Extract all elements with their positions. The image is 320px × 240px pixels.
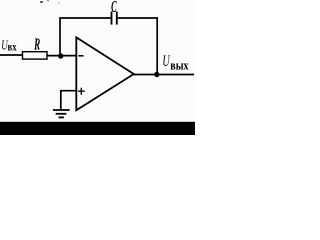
- wire: feedback vertical left: [59, 18, 61, 56]
- wire: input from left edge to resistor: [0, 54, 23, 56]
- op-amp U1 triangle: [76, 37, 134, 110]
- capacitor C: [112, 12, 117, 25]
- wire: resistor to inverting input: [47, 55, 77, 57]
- minus sign at inverting input: [78, 55, 83, 57]
- node: junction dot at inverting input: [58, 53, 63, 58]
- wire: capacitor to right feedback corner and down to output node: [118, 18, 158, 75]
- paper background: [0, 0, 195, 135]
- wire: op-amp output: [134, 74, 194, 76]
- plus sign at non-inverting input: [78, 88, 85, 95]
- svg-text:вх: вх: [8, 42, 18, 54]
- svg-text:вых: вых: [170, 59, 188, 72]
- svg-text:C: C: [111, 0, 117, 16]
- wire: feedback top left to capacitor: [59, 17, 110, 19]
- node: output junction dot: [154, 72, 159, 77]
- svg-text:R: R: [33, 34, 40, 53]
- black scan bar at bottom: [0, 122, 195, 135]
- wire: non-inverting input to ground stem: [61, 91, 77, 110]
- ground: [53, 110, 70, 117]
- resistor R: [23, 52, 48, 59]
- scan artifact speckles: [40, 1, 43, 3]
